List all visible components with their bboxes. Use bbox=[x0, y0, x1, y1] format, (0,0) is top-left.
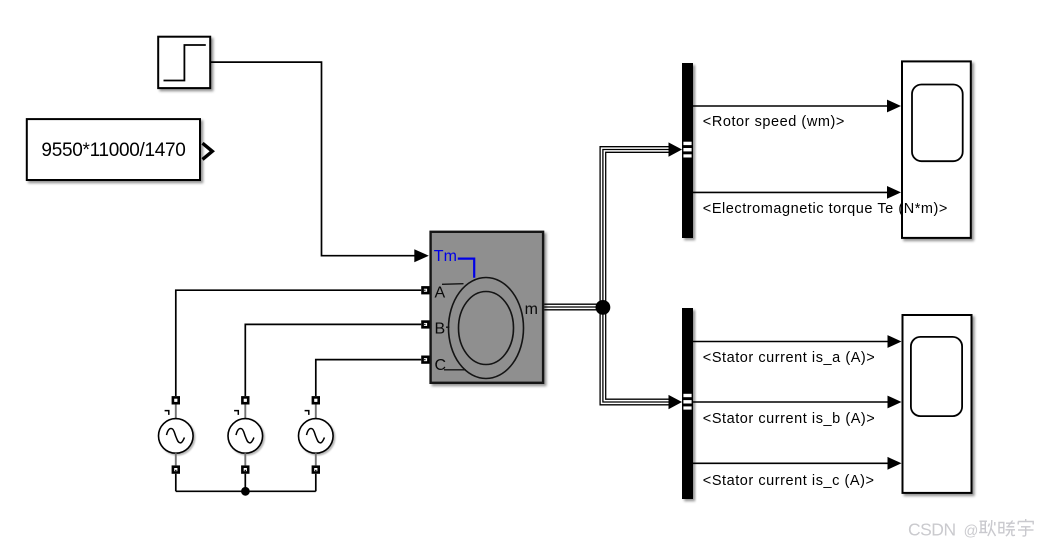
svg-text:A: A bbox=[435, 284, 446, 301]
svg-text:@: @ bbox=[964, 524, 979, 540]
svg-text:m: m bbox=[525, 301, 538, 318]
svg-text:CSDN: CSDN bbox=[908, 520, 956, 540]
svg-text:Tm: Tm bbox=[434, 248, 457, 265]
svg-text:<Stator current is_b (A)>: <Stator current is_b (A)> bbox=[703, 411, 876, 427]
svg-text:<Rotor speed (wm)>: <Rotor speed (wm)> bbox=[703, 114, 845, 130]
svg-text:C: C bbox=[435, 357, 447, 374]
svg-text:<Stator current is_c (A)>: <Stator current is_c (A)> bbox=[703, 473, 875, 489]
svg-text:<Stator current is_a (A)>: <Stator current is_a (A)> bbox=[703, 350, 876, 366]
svg-text:<Electromagnetic torque Te (N*: <Electromagnetic torque Te (N*m)> bbox=[703, 201, 948, 217]
svg-text:B: B bbox=[435, 321, 446, 338]
svg-text:9550*11000/1470: 9550*11000/1470 bbox=[41, 140, 185, 161]
